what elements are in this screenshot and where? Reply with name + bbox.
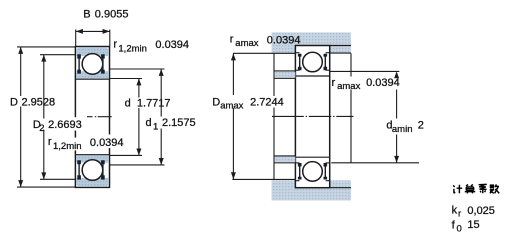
dimension d1: line and arrows [160, 69, 162, 117]
shaft surface line top [274, 77, 295, 79]
label 计算系数 (hand-drawn strokes) [453, 184, 499, 193]
shaft surface line bottom [274, 155, 295, 157]
shaft section strip bottom (blue) [275, 157, 296, 163]
svg-text:r: r [458, 208, 461, 219]
svg-text:amax: amax [337, 81, 360, 92]
ring edge lines top section [296, 52, 300, 54]
dimension D: line and arrows [20, 47, 22, 96]
svg-text:f: f [452, 220, 456, 232]
算 [465, 185, 475, 194]
svg-text:d: d [125, 98, 131, 110]
svg-text:2: 2 [39, 123, 44, 134]
svg-text:1,2min: 1,2min [118, 43, 147, 54]
svg-text:0.0394: 0.0394 [155, 39, 189, 51]
dimension B: line and arrows [76, 30, 110, 32]
svg-text:0: 0 [457, 224, 462, 235]
svg-text:2.7244: 2.7244 [250, 97, 284, 109]
housing top (blue) [272, 32, 352, 53]
svg-text:amax: amax [220, 101, 243, 112]
seal top-left [298, 54, 302, 71]
svg-text:0.0394: 0.0394 [267, 35, 301, 47]
dimension damin: line and arrows [396, 90, 398, 119]
svg-text:15: 15 [467, 219, 479, 231]
svg-text:0.9055: 0.9055 [95, 9, 129, 21]
bore line bottom section [75, 154, 109, 156]
svg-text:amin: amin [392, 124, 413, 135]
outer ring bottom (blue) [76, 178, 109, 187]
ring edge lines bottom section [296, 162, 300, 164]
bearing outline box [75, 47, 109, 188]
housing bottom (blue) [272, 180, 352, 200]
dimension d: line and arrows [138, 79, 140, 98]
inner ring bottom (blue) [76, 155, 109, 162]
svg-text:r: r [332, 77, 336, 89]
dimension damin: extension lines [330, 70, 400, 72]
bore line top section [75, 78, 109, 80]
svg-text:r: r [113, 39, 117, 51]
dimension D: extension lines [17, 46, 75, 48]
seal bottom-right [324, 163, 328, 180]
seal top-right [324, 54, 328, 71]
svg-text:k: k [452, 205, 458, 217]
ball bottom [303, 162, 323, 182]
svg-text:2: 2 [418, 120, 424, 132]
svg-text:1,2min: 1,2min [53, 141, 82, 152]
系 [479, 184, 487, 193]
bore line bottom section [295, 156, 329, 158]
ball top [303, 52, 323, 72]
svg-text:2.9528: 2.9528 [22, 97, 56, 109]
svg-text:r: r [230, 34, 234, 46]
seal top-right [101, 54, 105, 73]
shaft section strip top (blue) [275, 72, 296, 78]
housing bottom line left (Damax ext) [232, 178, 295, 180]
housing wall vertical line [350, 53, 352, 76]
数 [490, 184, 500, 193]
svg-text:0.0394: 0.0394 [90, 137, 124, 149]
centerline (dash-dot) [87, 116, 93, 118]
housing bore line left [233, 52, 295, 54]
svg-text:0,025: 0,025 [467, 205, 495, 217]
svg-text:amax: amax [235, 38, 258, 49]
OD extension line top right [330, 45, 351, 47]
seal bottom-right [101, 160, 105, 179]
seal bottom-left [77, 160, 81, 179]
dimension D2: line and arrows [43, 55, 45, 119]
seal bottom-left [298, 163, 302, 180]
svg-text:B: B [83, 9, 90, 21]
dimension d1: extension lines [110, 68, 165, 70]
svg-text:1: 1 [153, 122, 158, 133]
svg-text:r: r [48, 136, 52, 148]
svg-text:1.7717: 1.7717 [137, 98, 171, 110]
bearing outline box [295, 46, 329, 188]
dimension Damax: line and arrows [232, 54, 234, 96]
ball top [82, 54, 103, 75]
svg-text:D: D [212, 97, 220, 109]
svg-text:0.0394: 0.0394 [366, 77, 400, 89]
svg-text:D: D [10, 97, 18, 109]
shaft shoulder line bottom [274, 162, 295, 164]
svg-text:2.1575: 2.1575 [162, 117, 196, 129]
计 [453, 185, 462, 194]
inner ring top (blue) [76, 71, 109, 78]
dimension B: extension lines [75, 30, 77, 47]
centerline (dash-dot) [272, 115, 304, 117]
shaft shoulder line top [274, 70, 295, 72]
housing shoulder vertical line [273, 53, 275, 96]
bore line top section [295, 75, 329, 77]
outer ring top (blue) [76, 47, 109, 56]
seal top-left [77, 54, 81, 73]
dimension D2: extension lines [40, 54, 75, 56]
svg-text:2.6693: 2.6693 [48, 119, 82, 131]
dimension d: extension lines [110, 78, 143, 80]
housing bore line right [330, 52, 351, 54]
svg-text:d: d [146, 117, 152, 129]
OD extension line bottom right [330, 187, 351, 189]
ball bottom [82, 160, 103, 181]
